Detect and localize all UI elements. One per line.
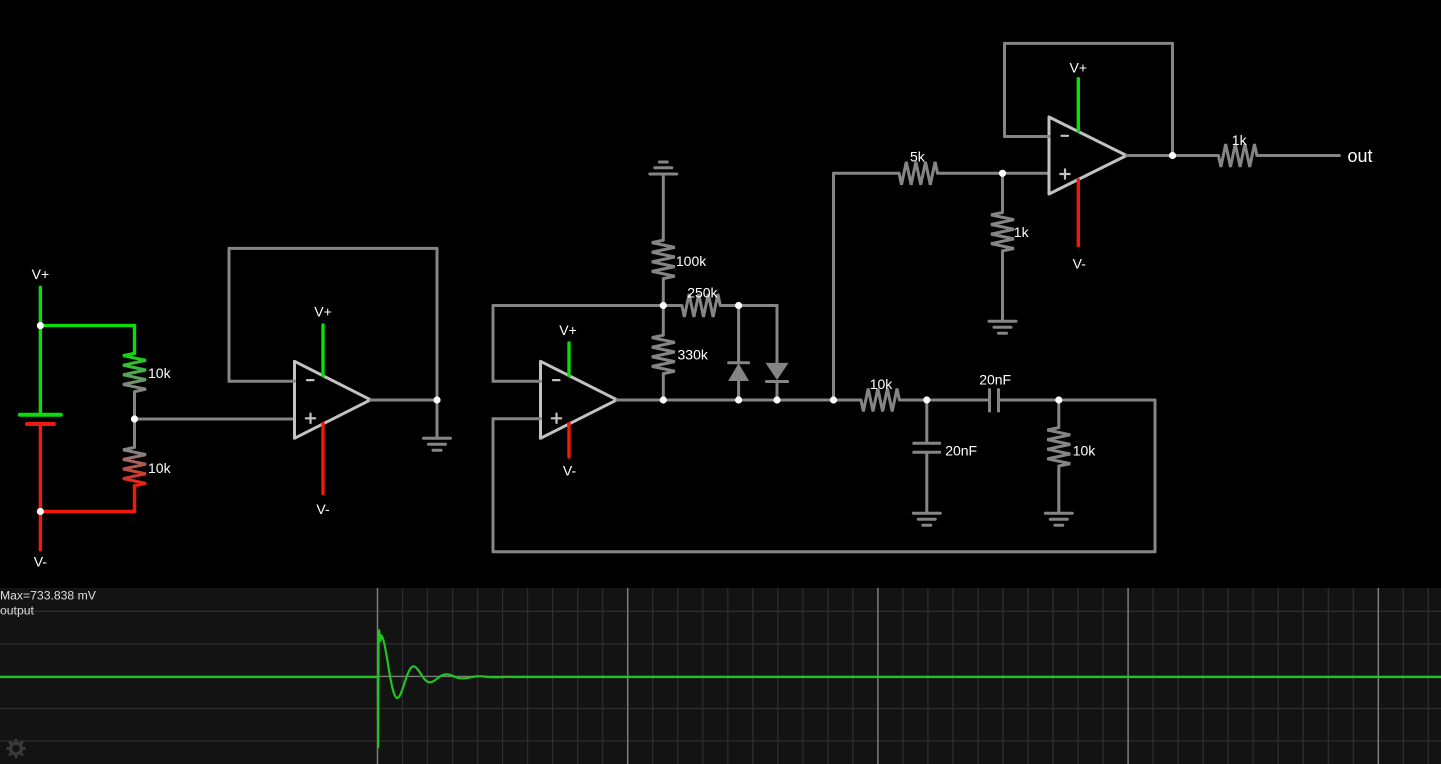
wire ground to R3 bbox=[662, 174, 665, 240]
rail V- stub U1 bbox=[321, 424, 324, 494]
wire D1 top lead bbox=[737, 306, 740, 363]
battery B1 positive plate bbox=[20, 413, 61, 417]
ground G5 below R9 bbox=[989, 321, 1016, 333]
label R5 value 330k bbox=[678, 346, 709, 362]
wire R4 to diode node bbox=[720, 304, 738, 307]
wire D1 bottom lead bbox=[737, 381, 740, 401]
label V+ U2 bbox=[559, 322, 577, 338]
label V- U1 bbox=[316, 501, 330, 517]
node 330k-bottom bbox=[660, 396, 667, 403]
node C1 top bbox=[923, 396, 930, 403]
rail V+ stub U3 bbox=[1077, 79, 1080, 132]
wire R7 top lead bbox=[1057, 400, 1060, 428]
ground G2 top (inverted) bbox=[650, 162, 677, 174]
svg-text:10k: 10k bbox=[1073, 443, 1097, 459]
node D1 bottom bbox=[735, 396, 742, 403]
resistor R1 10k upper divider bbox=[123, 326, 146, 419]
node R7 top bbox=[1055, 396, 1062, 403]
wire node to R4 bbox=[663, 304, 682, 307]
op-amp U2 bbox=[541, 361, 618, 438]
diode D2 cathode bar bbox=[766, 380, 787, 383]
svg-text:250k: 250k bbox=[687, 285, 718, 301]
label R10 value 1k bbox=[1232, 132, 1248, 148]
node battery top junction bbox=[37, 322, 44, 329]
wire U2 +in down left side bbox=[492, 419, 495, 552]
label V+ (battery rail) bbox=[32, 266, 50, 282]
resistor R2 10k lower divider bbox=[123, 419, 146, 512]
wire green battery top lead bbox=[39, 326, 42, 413]
scope trace output bbox=[0, 630, 1441, 747]
wire U3 feedback right bbox=[1171, 43, 1174, 155]
svg-text:Max=733.838 mV: Max=733.838 mV bbox=[0, 588, 97, 602]
svg-text:20nF: 20nF bbox=[979, 371, 1011, 387]
label R6 value 10k bbox=[870, 376, 894, 392]
node D2 bottom bbox=[773, 396, 780, 403]
node U1 output bbox=[433, 396, 440, 403]
wire U2 feedback top bbox=[493, 304, 663, 307]
wire U1 feedback left bbox=[228, 248, 231, 381]
resistor R10 1k bbox=[1219, 144, 1257, 167]
label V- (battery rail) bbox=[34, 554, 48, 570]
svg-text:V+: V+ bbox=[1070, 60, 1088, 76]
capacitor C2 20nF series plate2 bbox=[997, 388, 1000, 412]
svg-text:1k: 1k bbox=[1014, 224, 1030, 240]
label R8 value 5k bbox=[910, 149, 926, 165]
ground G3 below C1 bbox=[913, 513, 940, 525]
label R9 value 1k bbox=[1014, 224, 1030, 240]
svg-text:output: output bbox=[0, 603, 34, 617]
svg-text:V+: V+ bbox=[559, 322, 577, 338]
label V- U3 bbox=[1073, 255, 1087, 271]
capacitor C1 20nF shunt plate2 bbox=[913, 451, 942, 454]
resistor R4 250k bbox=[682, 294, 720, 317]
wire U3 feedback top bbox=[1005, 42, 1173, 45]
svg-text:10k: 10k bbox=[148, 460, 172, 476]
label C2 value 20nF bbox=[979, 371, 1011, 387]
svg-text:330k: 330k bbox=[678, 346, 709, 362]
node main junction bbox=[830, 396, 837, 403]
svg-text:5k: 5k bbox=[910, 149, 926, 165]
wire node to U3 +in bbox=[1003, 172, 1050, 175]
rail V- wire bbox=[39, 512, 42, 550]
wire U1 feedback top bbox=[229, 247, 437, 250]
resistor R9 1k bbox=[991, 213, 1014, 251]
label C1 value 20nF bbox=[945, 443, 977, 459]
node 250k-left bbox=[660, 302, 667, 309]
node divider mid bbox=[131, 415, 138, 422]
svg-text:out: out bbox=[1348, 146, 1373, 166]
label V+ U3 bbox=[1070, 60, 1088, 76]
wire C1 bottom lead bbox=[925, 454, 928, 514]
wire R7 bottom lead bbox=[1057, 466, 1060, 513]
svg-text:V-: V- bbox=[563, 462, 577, 478]
node U3 output bbox=[1169, 152, 1176, 159]
wire U2 output bbox=[617, 399, 663, 402]
diode D1 cathode bar bbox=[729, 361, 749, 364]
wire C2 right to node bbox=[1000, 399, 1059, 402]
capacitor C1 20nF shunt plate1 bbox=[913, 442, 942, 445]
svg-text:10k: 10k bbox=[870, 376, 894, 392]
wire U2 feedback left bbox=[492, 306, 495, 382]
svg-text:V+: V+ bbox=[314, 303, 332, 319]
wire node to R5 bbox=[662, 306, 665, 336]
scope vertical gridlines bbox=[378, 588, 1429, 764]
wire R9 top lead bbox=[1001, 173, 1004, 212]
wire U1 output bbox=[371, 399, 437, 402]
wire U1 output to ground bbox=[436, 400, 439, 438]
wire red bottom row bbox=[40, 510, 134, 513]
wire right box top bbox=[1059, 399, 1155, 402]
diode D1 body (pointing up) bbox=[729, 364, 748, 380]
wire R5 to output row bbox=[662, 374, 665, 400]
wire green top row bbox=[40, 324, 134, 327]
capacitor C2 20nF series plate1 bbox=[988, 388, 991, 412]
resistor R5 330k bbox=[652, 335, 675, 373]
scope text channel label output bbox=[0, 603, 34, 617]
scope settings gear icon bbox=[7, 740, 24, 757]
label R2 value 10k bbox=[148, 460, 172, 476]
rail V+ stub U2 bbox=[567, 343, 570, 376]
svg-text:V+: V+ bbox=[32, 266, 50, 282]
labeled node out bbox=[1348, 146, 1373, 166]
label R7 value 10k bbox=[1073, 443, 1097, 459]
scope horizontal gridlines bbox=[0, 611, 1441, 741]
label R3 value 100k bbox=[676, 253, 707, 269]
rail V- stub U3 bbox=[1077, 180, 1080, 246]
wire red battery bottom lead bbox=[39, 426, 42, 512]
resistor R8 5k bbox=[899, 162, 937, 185]
wire junction up bbox=[832, 173, 835, 400]
wire U3 -in stub bbox=[1005, 135, 1050, 138]
rail V+ wire bbox=[39, 287, 42, 325]
svg-text:V-: V- bbox=[1073, 255, 1087, 271]
ground G4 below R7 bbox=[1045, 513, 1072, 525]
label V+ U1 bbox=[314, 303, 332, 319]
wire divider mid to op-amp U1 +in bbox=[135, 418, 295, 421]
wire R6 to node bbox=[899, 399, 926, 402]
label R1 value 10k bbox=[148, 365, 172, 381]
wire bottom box bbox=[493, 550, 1155, 553]
op-amp U1 bbox=[295, 361, 371, 438]
svg-text:100k: 100k bbox=[676, 253, 707, 269]
ground G1 at U1 output bbox=[424, 438, 451, 450]
wire U2 -in stub bbox=[493, 380, 541, 383]
op-amp U3 bbox=[1049, 117, 1127, 194]
wire R3 to node bbox=[662, 279, 665, 306]
wire R10 to out bbox=[1257, 154, 1340, 157]
svg-text:V-: V- bbox=[34, 554, 48, 570]
node U3 +in bbox=[999, 170, 1006, 177]
resistor R3 100k bbox=[652, 240, 675, 278]
node battery bottom junction bbox=[37, 508, 44, 515]
wire R8 to node bbox=[938, 172, 1003, 175]
wire U2 +in stub bbox=[493, 417, 541, 420]
wire main row to junction bbox=[777, 399, 834, 402]
wire U3 output bbox=[1127, 154, 1173, 157]
svg-text:V-: V- bbox=[316, 501, 330, 517]
diode D2 body (pointing down) bbox=[766, 363, 787, 379]
scope text max value bbox=[0, 588, 97, 602]
wire diode-top to D2 corner bbox=[739, 304, 777, 307]
scope zero-volt center line bbox=[0, 675, 1441, 677]
wire D2 top lead bbox=[776, 306, 779, 364]
wire U1 feedback right bbox=[436, 248, 439, 400]
resistor R7 10k shunt bbox=[1047, 428, 1070, 466]
wire R9 bottom lead bbox=[1001, 251, 1004, 321]
rail V+ stub U1 bbox=[321, 325, 324, 376]
wire D2 bottom lead bbox=[776, 382, 779, 401]
wire U3 out to R10 bbox=[1173, 154, 1219, 157]
scope panel background bbox=[0, 588, 1441, 764]
wire junction to R6 bbox=[834, 399, 862, 402]
label V- U2 bbox=[563, 462, 577, 478]
svg-text:20nF: 20nF bbox=[945, 443, 977, 459]
wire U1 -in stub bbox=[229, 380, 295, 383]
wire node to C2 left bbox=[927, 399, 988, 402]
wire C1 top lead bbox=[925, 400, 928, 442]
wire U3 feedback left bbox=[1003, 43, 1006, 136]
wire main row D1-D2 bbox=[663, 399, 777, 402]
battery B1 negative plate bbox=[27, 422, 54, 426]
wire to R8 bbox=[834, 172, 900, 175]
label R4 value 250k bbox=[687, 285, 718, 301]
resistor R6 10k bbox=[861, 389, 899, 412]
svg-text:10k: 10k bbox=[148, 365, 172, 381]
rail V- stub U2 bbox=[567, 424, 570, 458]
node diode-top bbox=[735, 302, 742, 309]
wire right box up bbox=[1154, 400, 1157, 552]
svg-text:1k: 1k bbox=[1232, 132, 1248, 148]
